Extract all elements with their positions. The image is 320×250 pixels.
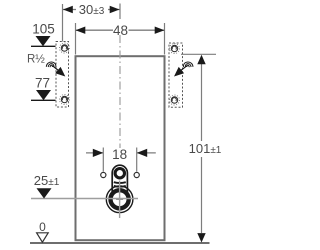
label 105 level line [31, 45, 56, 47]
dimension 48 line [76, 29, 113, 31]
panel outline (sanitary module front view) [76, 56, 165, 240]
left fastening screw bottom [60, 95, 70, 105]
outlet outer thin circle [106, 186, 133, 213]
flush pipe stadium outline [112, 165, 127, 193]
svg-text:0: 0 [39, 220, 46, 234]
arrow into right box (supply) [181, 66, 187, 71]
label 105 level triangle [36, 36, 51, 46]
dimension 101±1 top extension line [181, 53, 216, 55]
dimension 48 arrow left [76, 27, 86, 34]
outlet center cross ticks [116, 198, 123, 200]
label 77 level line [31, 99, 56, 101]
left fastening screw top [60, 43, 70, 53]
label 25±1 level triangle [37, 188, 52, 198]
outlet thick ring [111, 190, 129, 208]
svg-text:18: 18 [112, 147, 127, 162]
arrow into left box (supply) [53, 66, 59, 71]
dimension 18 arrow right (pointing left) [137, 149, 148, 157]
dimension 30±3 extension tick right (centerline, x=120) [119, 4, 121, 20]
dimension 101±1 arrow up [197, 55, 205, 64]
dimension 101±1 arrow down [197, 233, 205, 242]
dimension 18 arrow left (pointing right) [93, 149, 104, 157]
svg-text:48: 48 [113, 23, 128, 38]
centerline (dash-dot) [119, 35, 121, 148]
right fastening screw bottom [170, 95, 180, 105]
dimension 18 right tail line [137, 152, 156, 154]
dimension 30±3 arrow left [63, 6, 73, 13]
dimension 30±3 arrow right [110, 6, 120, 13]
dimension 18 left tail line [86, 152, 103, 154]
floor line [30, 242, 210, 244]
dimension 18 extension line right [136, 148, 138, 172]
label 77 level triangle [36, 90, 51, 100]
dimension 30±3 line [63, 9, 76, 11]
dimension 18 extension line left [102, 148, 104, 172]
outlet crosshair horizontal (25±1 level line) [31, 198, 138, 200]
WC bolt circle right [134, 172, 139, 177]
dimension 30±3 extension line left (at x=62.5) [62, 4, 64, 42]
dimension 48 arrow right [155, 27, 165, 34]
dimension 101±1 line [201, 64, 203, 141]
right fastening screw top [170, 44, 180, 54]
water swirl right [183, 62, 193, 67]
outlet crosshair vertical [119, 181, 121, 219]
svg-text:77: 77 [35, 76, 50, 91]
svg-text:105: 105 [32, 22, 55, 37]
label 0 open triangle [37, 233, 49, 242]
flush pipe clamp marks [114, 181, 126, 184]
dimension 48 extension line left (panel left edge) [75, 23, 77, 55]
svg-text:R½: R½ [27, 54, 45, 66]
left fastening dashed box [56, 42, 69, 108]
water swirl left [46, 62, 56, 67]
dimension 48 extension line right (panel right edge) [164, 23, 166, 55]
flush pipe circle [115, 169, 124, 178]
right fastening dashed box [169, 43, 183, 107]
WC bolt circle left [101, 172, 106, 177]
